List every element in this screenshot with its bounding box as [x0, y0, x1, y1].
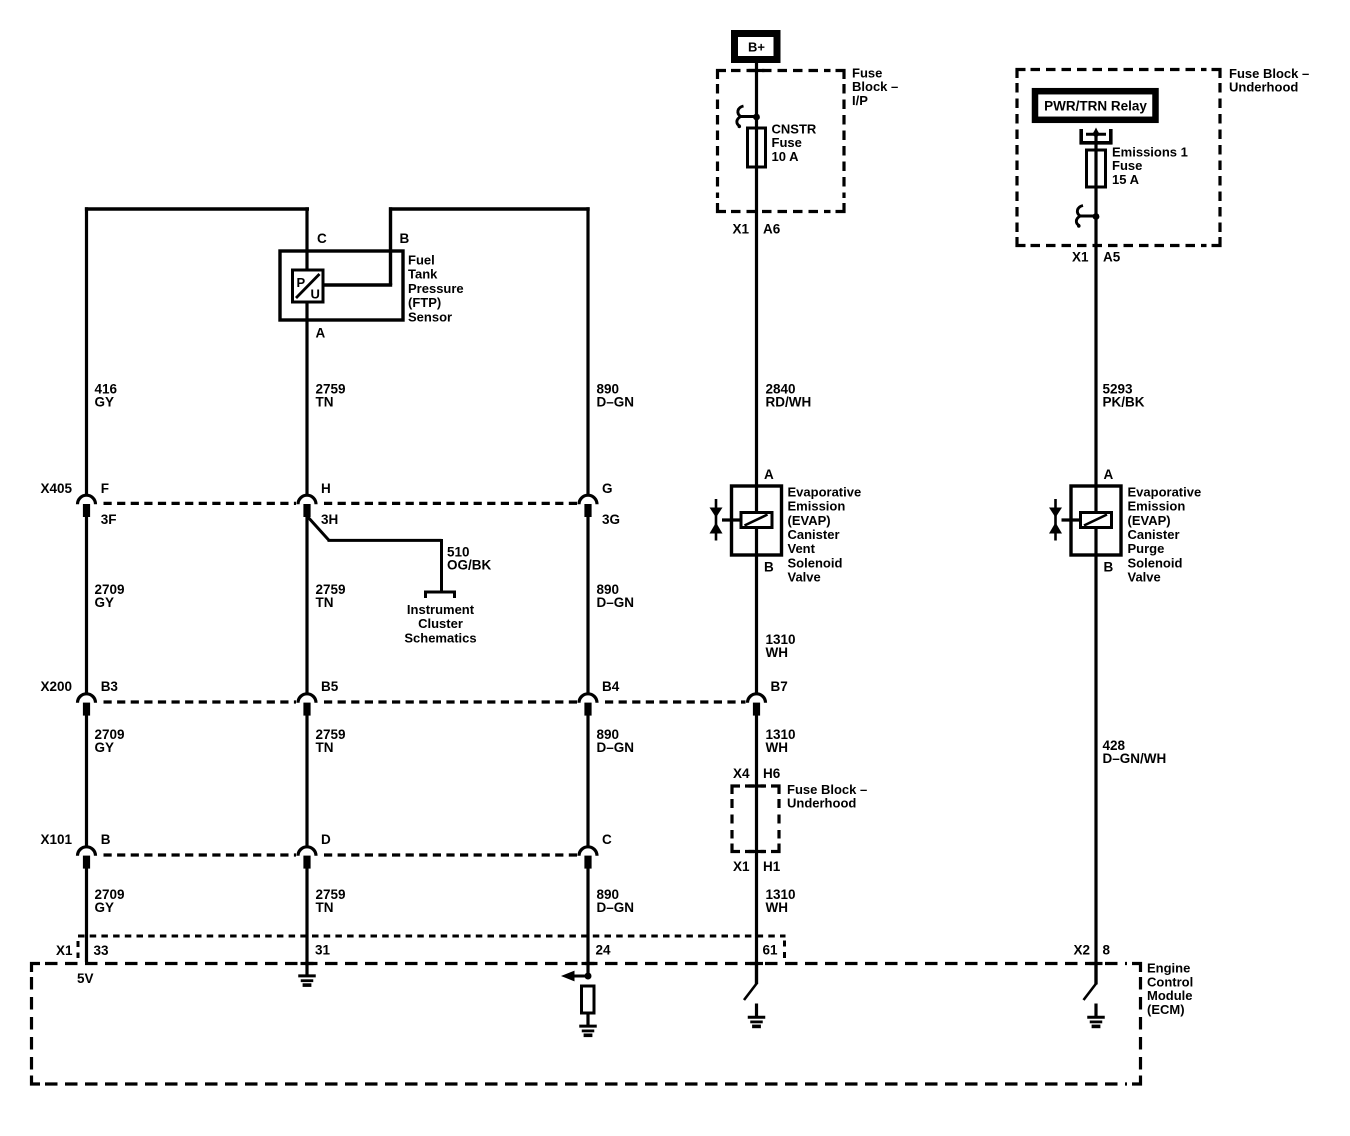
svg-text:D–GN: D–GN — [597, 395, 635, 410]
EVAP solenoid outer box — [1071, 486, 1121, 555]
svg-text:33: 33 — [94, 943, 110, 958]
svg-text:3F: 3F — [101, 512, 117, 527]
svg-text:C: C — [317, 231, 327, 246]
ECM internal ground (pin 31) — [298, 974, 316, 977]
svg-text:Solenoid: Solenoid — [1128, 555, 1183, 570]
svg-text:X1: X1 — [56, 943, 73, 958]
connector X101 pin D — [298, 847, 316, 856]
svg-text:15 A: 15 A — [1112, 172, 1140, 187]
svg-text:X405: X405 — [40, 481, 72, 496]
svg-text:3H: 3H — [321, 512, 338, 527]
svg-text:A: A — [316, 326, 326, 341]
svg-text:Control: Control — [1147, 974, 1193, 989]
solenoid coil — [1081, 513, 1112, 528]
ECM driver switch + ground (pin X2-8) — [1094, 962, 1097, 984]
svg-text:(EVAP): (EVAP) — [788, 513, 831, 528]
svg-text:Pressure: Pressure — [408, 281, 464, 296]
svg-text:8: 8 — [1103, 943, 1111, 958]
svg-text:G: G — [602, 481, 613, 496]
svg-text:X1: X1 — [1072, 250, 1089, 265]
Fuse Block Underhood dashed box — [1017, 70, 1026, 79]
svg-text:X1: X1 — [733, 859, 750, 874]
svg-text:3G: 3G — [602, 512, 620, 527]
svg-text:TN: TN — [316, 900, 334, 915]
svg-text:GY: GY — [95, 740, 115, 755]
svg-text:X200: X200 — [40, 679, 72, 694]
svg-text:Vent: Vent — [788, 541, 816, 556]
svg-text:(EVAP): (EVAP) — [1128, 513, 1171, 528]
svg-text:A: A — [1104, 467, 1114, 482]
svg-text:P: P — [297, 275, 306, 290]
B+ battery feed symbol — [735, 34, 778, 60]
wire 5293 PK/BK / 428 D-GN/WH vertical (relay branch) — [1094, 134, 1097, 985]
wire 2840 RD/WH / 1310 WH vertical (B+ branch) — [755, 62, 758, 694]
svg-text:A: A — [764, 467, 774, 482]
svg-text:X101: X101 — [40, 832, 72, 847]
svg-text:F: F — [101, 481, 109, 496]
svg-text:Underhood: Underhood — [1229, 80, 1298, 95]
ECM dashed box — [32, 964, 41, 973]
svg-text:H: H — [321, 481, 331, 496]
PWR/TRN Relay box — [1035, 91, 1156, 120]
svg-text:X2: X2 — [1073, 943, 1090, 958]
wire FTP pin B horizontal into sensor — [321, 283, 392, 286]
Fuse Block Underhood pass-through dashed box — [732, 786, 740, 794]
svg-text:B: B — [764, 560, 774, 575]
connector X200 pin B5 — [298, 694, 316, 703]
wire 2759 TN center vertical — [305, 207, 308, 270]
connector X405 pin F — [78, 495, 96, 504]
connector X200 pin B3 — [78, 694, 96, 703]
svg-text:Module: Module — [1147, 988, 1193, 1003]
wire 510 OG/BK branch — [307, 516, 329, 540]
connector X101 pin B — [78, 847, 96, 856]
svg-text:B: B — [400, 231, 410, 246]
wire 890 D-GN top horizontal — [389, 207, 590, 210]
wire 416 GY left vertical — [85, 207, 88, 495]
svg-text:WH: WH — [766, 645, 789, 660]
connector X405 pin G — [579, 495, 597, 504]
ECM X1 connector dotted line — [78, 935, 786, 938]
svg-text:Purge: Purge — [1128, 541, 1165, 556]
svg-text:OG/BK: OG/BK — [447, 558, 492, 573]
svg-text:TN: TN — [316, 395, 334, 410]
ECM internal ground (pin 24) — [579, 1025, 597, 1028]
connector X200 pin B7 — [748, 694, 766, 703]
svg-text:GY: GY — [95, 900, 115, 915]
svg-text:10 A: 10 A — [772, 149, 800, 164]
svg-text:Cluster: Cluster — [418, 616, 463, 631]
svg-text:H6: H6 — [763, 766, 781, 781]
valve symbol — [715, 499, 718, 541]
valve symbol — [1054, 499, 1057, 541]
ECM driver switch + ground (pin 61) — [755, 962, 758, 984]
svg-text:Schematics: Schematics — [404, 630, 476, 645]
svg-text:Underhood: Underhood — [787, 796, 856, 811]
Fuse Block I/P dashed box — [718, 71, 727, 80]
svg-text:Solenoid: Solenoid — [788, 555, 843, 570]
Emissions fuse clip — [1077, 206, 1097, 217]
svg-text:Instrument: Instrument — [407, 602, 475, 617]
svg-text:RD/WH: RD/WH — [766, 395, 812, 410]
FTP sensor box — [280, 251, 403, 320]
ECM X1 connector right tick — [783, 941, 786, 959]
relay output terminal — [1079, 129, 1083, 144]
svg-text:Fuel: Fuel — [408, 253, 435, 268]
svg-text:Valve: Valve — [1128, 570, 1161, 585]
svg-text:I/P: I/P — [852, 93, 868, 108]
svg-text:31: 31 — [315, 943, 331, 958]
svg-text:Valve: Valve — [788, 570, 821, 585]
svg-text:TN: TN — [316, 595, 334, 610]
svg-text:D: D — [321, 832, 331, 847]
off-page reference fork — [426, 592, 455, 598]
svg-text:WH: WH — [766, 900, 789, 915]
svg-text:X1: X1 — [732, 222, 749, 237]
svg-text:GY: GY — [95, 595, 115, 610]
connector X405 dashed line — [104, 502, 297, 505]
svg-text:B: B — [1104, 560, 1114, 575]
svg-text:5V: 5V — [77, 971, 94, 986]
svg-text:A6: A6 — [763, 222, 781, 237]
svg-text:Tank: Tank — [408, 267, 438, 282]
CNSTR fuse clip — [738, 106, 758, 117]
FTP sensor P/U transducer — [293, 270, 324, 302]
svg-text:(ECM): (ECM) — [1147, 1002, 1185, 1017]
wire 890 D-GN right vertical — [586, 207, 589, 495]
connector X101 dashed line — [104, 853, 297, 856]
svg-text:TN: TN — [316, 740, 334, 755]
svg-text:B7: B7 — [771, 679, 788, 694]
svg-text:GY: GY — [95, 395, 115, 410]
connector X101 pin C — [579, 847, 597, 856]
Emissions 1 fuse — [1087, 150, 1106, 187]
svg-text:D–GN/WH: D–GN/WH — [1103, 751, 1167, 766]
EVAP solenoid outer box — [732, 486, 782, 555]
svg-text:X4: X4 — [733, 766, 750, 781]
svg-text:Evaporative: Evaporative — [1128, 484, 1202, 499]
svg-text:Canister: Canister — [1128, 527, 1180, 542]
svg-text:B5: B5 — [321, 679, 339, 694]
wire 416 GY top horizontal — [85, 207, 309, 210]
svg-text:(FTP): (FTP) — [408, 295, 441, 310]
svg-text:Canister: Canister — [788, 527, 840, 542]
svg-text:D–GN: D–GN — [597, 740, 635, 755]
svg-text:D–GN: D–GN — [597, 595, 635, 610]
svg-text:U: U — [311, 287, 320, 302]
ECM internal resistor (pin 24) — [582, 986, 595, 1013]
CNSTR fuse — [748, 128, 766, 167]
connector X200 dashed line — [104, 700, 297, 703]
wire FTP pin B vertical — [389, 207, 392, 285]
svg-text:PK/BK: PK/BK — [1103, 395, 1145, 410]
svg-text:B3: B3 — [101, 679, 119, 694]
svg-text:C: C — [602, 832, 612, 847]
connector X200 pin B4 — [579, 694, 597, 703]
svg-text:A5: A5 — [1103, 250, 1121, 265]
ECM X1 connector left tick — [77, 941, 80, 958]
svg-text:B4: B4 — [602, 679, 620, 694]
svg-text:Sensor: Sensor — [408, 309, 452, 324]
svg-text:24: 24 — [596, 943, 612, 958]
svg-text:B: B — [101, 832, 111, 847]
ECM internal pull-up arrow (pin 24) — [561, 971, 575, 982]
svg-text:Engine: Engine — [1147, 961, 1190, 976]
svg-text:Evaporative: Evaporative — [788, 484, 862, 499]
svg-text:PWR/TRN Relay: PWR/TRN Relay — [1044, 99, 1147, 114]
svg-text:D–GN: D–GN — [597, 900, 635, 915]
solenoid coil — [741, 513, 772, 528]
svg-text:Emission: Emission — [788, 499, 846, 514]
svg-text:Emission: Emission — [1128, 499, 1186, 514]
svg-text:H1: H1 — [763, 859, 781, 874]
svg-text:B+: B+ — [748, 40, 765, 55]
connector X405 pin H — [298, 495, 316, 504]
svg-text:61: 61 — [763, 943, 779, 958]
svg-text:WH: WH — [766, 740, 789, 755]
